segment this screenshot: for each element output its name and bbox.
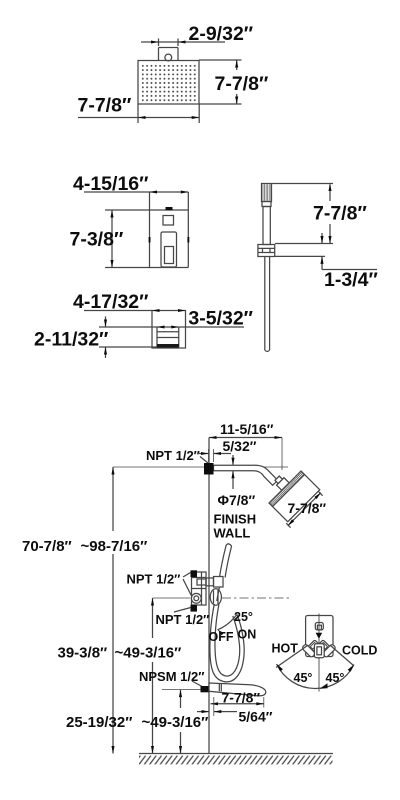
center marker: [316, 633, 323, 639]
dim 1-3/4 bracket: [275, 233, 378, 291]
supply elbow circle: [191, 593, 201, 603]
handle icon up: [315, 623, 323, 630]
dim 2-9/32 bracket width: [141, 23, 253, 46]
cross handle plate: [306, 616, 333, 657]
shower arm: [214, 465, 278, 485]
25 degree arc: [218, 615, 237, 636]
svg-text:2-11/32″: 2-11/32″: [34, 329, 108, 351]
svg-text:7-7/8″: 7-7/8″: [215, 73, 269, 95]
svg-text:70-7/8″: 70-7/8″: [22, 538, 72, 555]
dim 7-7/8 hand shower length: [272, 184, 367, 244]
hand shower head: [262, 184, 272, 207]
dim 7-7/8 head width (bottom): [78, 95, 200, 124]
shower head face view: [138, 61, 199, 105]
pipe through wall: [197, 578, 214, 586]
svg-text:4-17/32″: 4-17/32″: [73, 291, 148, 313]
svg-text:11-5/16″: 11-5/16″: [220, 421, 274, 437]
dim 5/64 spout offset: [197, 697, 273, 725]
valve centerline right: [222, 597, 290, 599]
label NPT 1/2 valve bottom: [156, 608, 210, 628]
label NPSM 1/2: [139, 669, 204, 687]
dim 7-7/8 head height (right): [199, 60, 268, 104]
valve body rough-in: [192, 572, 207, 605]
dim 5/32 flange: [197, 438, 257, 462]
dim 7-7/8 spout reach: [211, 690, 264, 708]
top inlet fitting NPT: [191, 570, 198, 577]
svg-text:5/32″: 5/32″: [223, 438, 257, 454]
arm wall flange: [204, 463, 214, 475]
hose loop: [210, 604, 244, 682]
docked hand shower tube: [220, 544, 232, 578]
neutral marker arrow: [320, 683, 328, 688]
hand shower tail: [217, 587, 220, 601]
svg-text:7-7/8″: 7-7/8″: [222, 690, 261, 706]
svg-text:45°: 45°: [294, 671, 313, 685]
hand shower hose (middle view): [265, 257, 270, 352]
svg-text:NPT 1/2″: NPT 1/2″: [127, 572, 181, 587]
svg-text:2-9/32″: 2-9/32″: [189, 23, 254, 45]
rotation arc: [277, 664, 354, 689]
dim 3-5/32 inner width: [157, 308, 253, 330]
dim 25-19/32 spout height: [66, 690, 209, 754]
arm centerline: [113, 466, 288, 468]
dim 11-5/16 arm reach: [209, 421, 282, 470]
svg-text:45°: 45°: [326, 671, 345, 685]
svg-text:~49-3/16″: ~49-3/16″: [142, 714, 209, 731]
label NPT 1/2 valve top: [127, 572, 192, 596]
tub spout fitting: [201, 686, 210, 692]
mounting bracket on head: [159, 48, 179, 61]
finish wall line: [208, 438, 210, 754]
bottom outlet fitting NPT: [191, 605, 198, 612]
svg-text:39-3/8″: 39-3/8″: [58, 645, 108, 662]
dim 7-3/8 box height: [70, 210, 150, 268]
svg-text:7-3/8″: 7-3/8″: [70, 229, 124, 251]
svg-text:FINISH: FINISH: [214, 512, 257, 527]
svg-text:7-7/8″: 7-7/8″: [313, 203, 367, 225]
diverter block outside wall: [214, 577, 224, 588]
svg-text:4-15/16″: 4-15/16″: [73, 173, 148, 195]
svg-text:NPT 1/2″: NPT 1/2″: [146, 448, 200, 463]
svg-text:1-3/4″: 1-3/4″: [324, 269, 378, 291]
dim 2-11/32 elbow height: [34, 317, 157, 359]
45deg boundary line left: [276, 646, 308, 668]
dim 70-7/8 ~98-7/16 height: [22, 467, 147, 754]
cross handle detail centerline: [318, 614, 320, 692]
svg-text:Φ7/8″: Φ7/8″: [218, 492, 256, 508]
handle rotated left 45: [302, 637, 323, 658]
label FINISH WALL: [214, 512, 257, 541]
dim phi 7/8 arm diameter: [218, 455, 256, 508]
svg-text:25-19/32″: 25-19/32″: [66, 714, 132, 731]
dim 39-3/8 ~49-3/16 valve height: [58, 598, 191, 754]
svg-text:WALL: WALL: [214, 526, 251, 541]
shower head (angled): [261, 463, 320, 522]
svg-text:COLD: COLD: [342, 644, 377, 658]
handle rotated right 45: [316, 637, 337, 658]
svg-text:HOT: HOT: [272, 642, 299, 656]
floor line: [139, 754, 333, 765]
hand shower handle: [263, 207, 270, 245]
svg-text:NPT 1/2″: NPT 1/2″: [156, 612, 210, 627]
label NPT 1/2 shower arm: [146, 448, 208, 463]
45deg boundary line right: [331, 646, 354, 666]
dim 7-7/8 head diagonal: [286, 491, 326, 528]
svg-text:7-7/8″: 7-7/8″: [288, 500, 327, 516]
svg-text:3-5/32″: 3-5/32″: [188, 308, 253, 330]
svg-text:ON: ON: [238, 628, 257, 642]
wall supply elbow body: [152, 311, 186, 349]
svg-text:~49-3/16″: ~49-3/16″: [115, 645, 182, 662]
dim 4-15/16 box depth: [73, 173, 188, 195]
wall bracket holder: [258, 245, 275, 257]
svg-text:25°: 25°: [234, 610, 253, 624]
svg-text:5/64″: 5/64″: [239, 709, 273, 725]
svg-text:7-7/8″: 7-7/8″: [78, 95, 132, 117]
svg-text:~98-7/16″: ~98-7/16″: [81, 538, 148, 555]
dim 4-17/32 elbow width: [73, 291, 186, 313]
valve box side view: [149, 192, 190, 268]
diverter knob edge view: [210, 589, 221, 605]
svg-text:OFF: OFF: [209, 630, 234, 644]
tub spout body: [209, 683, 266, 696]
handle icon down: [314, 644, 324, 658]
